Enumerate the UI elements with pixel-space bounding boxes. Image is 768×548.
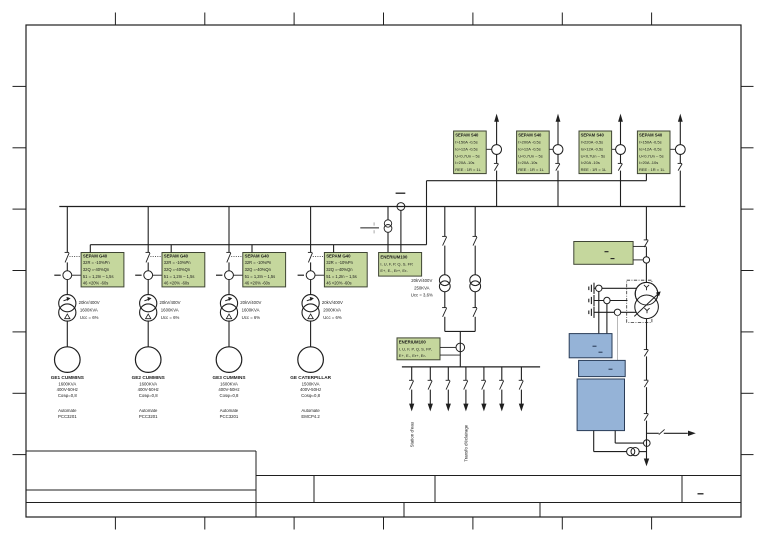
CT bar branch 4 <box>298 274 304 276</box>
wire metering line <box>90 244 426 246</box>
relay SEPAM G40 #4 <box>324 253 367 287</box>
transformer T1 20kV/400V <box>59 295 76 312</box>
svg-text:PCC3201: PCC3201 <box>58 414 77 419</box>
wire feeder 1 CT to breaker <box>496 154 498 163</box>
wire S40 sub-bus <box>427 180 647 182</box>
breaker Q3 generator branch 3 <box>226 251 231 253</box>
wye symbol secondary <box>644 308 649 313</box>
relay SEPAM G40 #3 <box>243 253 286 287</box>
switch LV feeder 3 <box>446 379 451 381</box>
svg-text:46 <20% -60s: 46 <20% -60s <box>83 281 108 286</box>
wire generator branch 4 drop <box>310 207 312 253</box>
CT feeder 4 <box>675 145 685 155</box>
wire LV feeder 6 <box>501 367 503 380</box>
coupling double circle <box>627 448 635 456</box>
wire tap3 gray to box2 <box>617 316 619 361</box>
wire aux transformer feeder 1 drop <box>444 207 446 237</box>
LV 400V bus <box>402 366 540 368</box>
control link breaker 1 to relay (dotted) <box>70 256 81 258</box>
outgoing feeder arrow 2 <box>556 114 561 122</box>
wire feeder 2 CT to breaker <box>557 154 559 163</box>
svg-text:EMCP4.2: EMCP4.2 <box>301 414 320 419</box>
svg-text:PCC3201: PCC3201 <box>220 414 239 419</box>
svg-text:SEPAM S40: SEPAM S40 <box>639 133 663 138</box>
control link breaker 3 to relay (dotted) <box>231 256 242 258</box>
arrow LV feeder 2 <box>428 404 433 412</box>
CT to relay link branch 4 <box>315 274 324 276</box>
switch LV feeder 6 <box>499 379 504 381</box>
svg-text:1600KVA: 1600KVA <box>139 381 157 386</box>
transformer aux 2 250KVA <box>470 275 481 286</box>
wire feeder 3 CT to breaker <box>620 154 622 163</box>
meter links lower <box>440 346 456 348</box>
breaker feeder 2 <box>555 162 560 164</box>
outgoing feeder arrow 4 <box>678 114 683 122</box>
VT voltage transformer <box>384 220 391 227</box>
ground tap 3 <box>593 307 595 318</box>
relay link feeder 1 <box>486 148 492 150</box>
svg-text:Io>12A -0,5s: Io>12A -0,5s <box>581 146 604 151</box>
OLTC arrow <box>634 294 658 317</box>
svg-text:SEPAM G40: SEPAM G40 <box>326 253 351 258</box>
wire feeder 1 upper <box>496 121 498 145</box>
wire CT to transformer <box>645 263 647 283</box>
transformer aux 1 250KVA <box>439 275 450 286</box>
svg-text:Automate: Automate <box>139 408 158 413</box>
wire aux join <box>445 330 475 332</box>
CT utility upper <box>643 257 649 263</box>
breaker Q1 generator branch 1 <box>65 251 70 253</box>
wire metering stub to relay 4 <box>333 245 335 253</box>
svg-text:32R = -10%Pn: 32R = -10%Pn <box>245 260 272 265</box>
wire LV feeder 1 <box>411 367 413 380</box>
CT to relay link branch 2 <box>153 274 162 276</box>
svg-text:2000KVA: 2000KVA <box>323 307 341 312</box>
svg-text:1600KVA: 1600KVA <box>80 307 98 312</box>
switch aux feeder 1 upper <box>442 235 447 237</box>
tap 2 wire <box>594 300 628 302</box>
svg-text:ENERIUM100: ENERIUM100 <box>399 340 427 345</box>
wire LV drop <box>459 331 461 367</box>
wire LV feeder 2 <box>429 367 431 380</box>
wire aux feeder 2 to join <box>474 317 476 332</box>
relay SEPAM S40 #2 <box>517 131 550 174</box>
svg-text:20kV/400V: 20kV/400V <box>79 300 100 305</box>
svg-text:I, U, F, P, Q, S, FP,: I, U, F, P, Q, S, FP, <box>380 261 413 266</box>
svg-text:SEPAM S40: SEPAM S40 <box>455 133 479 138</box>
svg-text:400V-50Hz: 400V-50Hz <box>218 387 239 392</box>
svg-text:SEPAM S40: SEPAM S40 <box>518 133 542 138</box>
switch right branch <box>659 429 665 434</box>
svg-text:46 <20% -60s: 46 <20% -60s <box>164 281 189 286</box>
wire breaker to CT branch 3 <box>228 262 230 270</box>
svg-text:51 = 1,2In – 1,5s: 51 = 1,2In – 1,5s <box>164 274 195 279</box>
switch utility upper <box>644 239 649 241</box>
svg-text:32Q =-40%Qn: 32Q =-40%Qn <box>164 267 191 272</box>
svg-text:I>220A -0,5s: I>220A -0,5s <box>581 140 604 145</box>
relay SEPAM G40 #1 <box>81 253 124 287</box>
svg-text:Cosφ=0,8: Cosφ=0,8 <box>220 393 240 398</box>
CT on main bus <box>397 203 405 211</box>
wire metering stub to relay 1 <box>89 245 91 253</box>
svg-text:51 = 1,2In – 1,5s: 51 = 1,2In – 1,5s <box>245 274 276 279</box>
control box blue 2 <box>579 360 626 376</box>
wire feeder 4 CT to breaker <box>679 154 681 163</box>
relay SEPAM S40 #4 <box>637 131 670 174</box>
svg-text:1600KVA: 1600KVA <box>220 381 238 386</box>
generator G3 circle <box>216 347 242 373</box>
branch to right arrow <box>647 432 659 434</box>
wire breaker to CT branch 2 <box>147 262 149 270</box>
switch aux feeder 1 lower <box>442 307 447 309</box>
svg-text:Io>12A -0,5s: Io>12A -0,5s <box>639 146 662 151</box>
breaker Q2 generator branch 2 <box>146 251 151 253</box>
svg-text:1500KVA: 1500KVA <box>302 381 320 386</box>
svg-text:Automate: Automate <box>58 408 77 413</box>
svg-text:Ucc = 6%: Ucc = 6% <box>80 315 99 320</box>
svg-text:32R = -10%Pn: 32R = -10%Pn <box>83 260 110 265</box>
wire LV feeder 1 lower <box>411 390 413 405</box>
CT tap 3 <box>614 309 620 315</box>
wire LV feeder 3 lower <box>447 390 449 405</box>
svg-text:20kV/400V: 20kV/400V <box>240 300 261 305</box>
svg-text:1600KVA: 1600KVA <box>58 381 76 386</box>
label dash above bus <box>396 192 406 194</box>
wire aux feeder 1 to join <box>444 317 446 332</box>
wire aux feeder 1 <box>444 246 446 275</box>
arrow right <box>688 431 696 436</box>
svg-text:32R = -10%Pn: 32R = -10%Pn <box>164 260 191 265</box>
wire transformer to generator 1 <box>66 321 68 347</box>
wire generator branch 1 drop <box>66 207 68 253</box>
svg-text:U<0,7Un – 5s: U<0,7Un – 5s <box>455 153 480 158</box>
svg-text:U<0,7Un – 5s: U<0,7Un – 5s <box>518 153 543 158</box>
svg-text:32R = -10%Pn: 32R = -10%Pn <box>326 260 353 265</box>
arrow LV feeder 6 <box>499 404 504 412</box>
CT feeder 3 <box>616 145 626 155</box>
svg-text:Ucc = 6%: Ucc = 6% <box>161 315 180 320</box>
switch LV feeder 5 <box>481 379 486 381</box>
svg-text:REE : 1R = 1L: REE : 1R = 1L <box>581 167 607 172</box>
wire transformer to generator 2 <box>147 321 149 347</box>
wire LV feeder 3 <box>447 367 449 380</box>
wire utility <box>646 356 648 380</box>
svg-text:250KVA: 250KVA <box>414 285 430 290</box>
svg-text:SEPAM S40: SEPAM S40 <box>581 133 605 138</box>
svg-text:Cosφ=0,8: Cosφ=0,8 <box>139 393 159 398</box>
wire LV feeder 6 lower <box>501 390 503 405</box>
wire aux feeder 2 lower <box>474 292 476 308</box>
svg-text:Cosφ=0,8: Cosφ=0,8 <box>301 393 321 398</box>
main 20kV bus <box>59 206 685 208</box>
arrow LV feeder 3 <box>446 404 451 412</box>
CT LV drop <box>456 343 465 352</box>
relay box right (green) <box>574 242 633 265</box>
svg-text:PCC3201: PCC3201 <box>139 414 158 419</box>
box3 stub left to coupling <box>593 431 595 452</box>
wire feeder 3 upper <box>620 121 622 145</box>
wire LV feeder 5 <box>483 367 485 380</box>
arrow LV feeder 5 <box>481 404 486 412</box>
svg-text:20kV/400V: 20kV/400V <box>160 300 181 305</box>
transformer T4 20kV/400V <box>302 295 319 312</box>
breaker feeder 3 <box>618 162 623 164</box>
svg-text:U<0,7Un – 5s: U<0,7Un – 5s <box>639 153 664 158</box>
wire generator branch 3 drop <box>228 207 230 253</box>
CT branch 4 <box>306 271 315 280</box>
relay link upper <box>633 245 646 247</box>
wire feeder 4 upper <box>679 121 681 145</box>
tap 1 wire <box>594 287 646 289</box>
svg-text:SEPAM G40: SEPAM G40 <box>164 253 189 258</box>
box3 stub right to CT <box>614 431 616 444</box>
svg-text:I>200A -0,5s: I>200A -0,5s <box>518 140 541 145</box>
wire tap2 to box <box>606 304 608 334</box>
CT bar branch 2 <box>135 274 141 276</box>
wire VT drop <box>387 207 389 220</box>
arrow LV feeder 1 <box>409 404 414 412</box>
svg-text:Cosφ=0,8: Cosφ=0,8 <box>58 393 78 398</box>
transformer T2 20kV/400V <box>140 295 157 312</box>
wire tap1 to box <box>598 292 600 334</box>
title block dash label <box>698 493 704 495</box>
CT branch 1 <box>63 271 72 280</box>
switch LV feeder 2 <box>428 379 433 381</box>
svg-text:GE3 CUMMINS: GE3 CUMMINS <box>212 375 245 380</box>
svg-text:I>20A -10s: I>20A -10s <box>518 160 537 165</box>
relay SEPAM G40 #2 <box>162 253 205 287</box>
svg-text:400V-50Hz: 400V-50Hz <box>138 387 159 392</box>
svg-text:I>20A -10s: I>20A -10s <box>639 160 658 165</box>
meter ENERIUM100 upper <box>379 253 422 277</box>
arrow LV feeder 4 <box>463 404 468 412</box>
svg-text:I>20A -10s: I>20A -10s <box>581 160 600 165</box>
wire LV feeder 2 lower <box>429 390 431 405</box>
relay SEPAM S40 #3 <box>579 131 612 174</box>
svg-text:51 = 1,2In – 1,5s: 51 = 1,2In – 1,5s <box>326 274 357 279</box>
svg-text:REE : 1R = 1L: REE : 1R = 1L <box>455 167 481 172</box>
svg-text:I, U, F, P, Q, S, FP,: I, U, F, P, Q, S, FP, <box>399 347 432 352</box>
svg-text:20kV/400V: 20kV/400V <box>411 278 432 283</box>
wire CT to transformer branch 2 <box>147 280 149 295</box>
wire metering stub to relay 2 <box>170 245 172 253</box>
svg-text:32Q =-40%Qn: 32Q =-40%Qn <box>326 267 353 272</box>
svg-text:Station d'eau: Station d'eau <box>409 421 414 447</box>
wire transformer to generator 3 <box>228 321 230 347</box>
svg-text:SEPAM G40: SEPAM G40 <box>245 253 270 258</box>
wire LV feeder 4 <box>465 367 467 380</box>
ground tap 2 <box>593 295 595 306</box>
switch LV feeder 1 <box>409 379 414 381</box>
title block <box>26 451 741 517</box>
wire breaker to CT branch 4 <box>310 262 312 270</box>
wire CT to transformer branch 1 <box>66 280 68 295</box>
wire transformer to generator 4 <box>310 321 312 347</box>
breaker Q4 generator branch 4 <box>308 251 313 253</box>
transformer main OLTC <box>635 282 658 305</box>
transformer T3 20kV/400V <box>220 295 237 312</box>
svg-text:SEPAM G40: SEPAM G40 <box>83 253 108 258</box>
relay link feeder 3 <box>612 148 616 150</box>
switch aux feeder 2 upper <box>473 235 478 237</box>
CT branch 3 <box>225 271 234 280</box>
wire CT to transformer branch 3 <box>228 280 230 295</box>
svg-text:51 = 1,2In – 1,5s: 51 = 1,2In – 1,5s <box>83 274 114 279</box>
ground tap 1 <box>593 283 595 294</box>
tap 3 wire <box>594 311 647 313</box>
switch LV feeder 4 <box>463 379 468 381</box>
wye symbol primary <box>644 285 649 290</box>
CT utility lower <box>644 440 651 447</box>
wire metering stub to relay 3 <box>251 245 253 253</box>
CT branch 2 <box>144 271 153 280</box>
svg-text:400V-50Hz: 400V-50Hz <box>300 387 321 392</box>
control box blue 3 <box>577 379 624 431</box>
svg-text:Automate: Automate <box>301 408 320 413</box>
svg-text:I>150A -0,5s: I>150A -0,5s <box>455 140 478 145</box>
svg-text:GE CATERPILLAR: GE CATERPILLAR <box>290 375 331 380</box>
control link breaker 4 to relay (dotted) <box>313 256 324 258</box>
wire feeder 2 to bus <box>557 171 559 207</box>
svg-text:U<0,7Un – 5s: U<0,7Un – 5s <box>581 153 606 158</box>
CT to relay link branch 1 <box>72 274 81 276</box>
relay link feeder 2 <box>549 148 553 150</box>
svg-text:Io>12A -0,5s: Io>12A -0,5s <box>455 146 478 151</box>
control box blue 1 <box>569 334 612 358</box>
wire LV feeder 7 <box>520 367 522 380</box>
relay SEPAM S40 #1 <box>454 131 487 174</box>
svg-text:46 <20% -60s: 46 <20% -60s <box>326 281 351 286</box>
svg-text:1600KVA: 1600KVA <box>242 307 260 312</box>
svg-text:Ucc = 6%: Ucc = 6% <box>323 315 342 320</box>
wire stub sub-bus to relay S40 #4 <box>645 174 647 181</box>
wire LV feeder 5 lower <box>483 390 485 405</box>
svg-text:ENERIUM100: ENERIUM100 <box>380 254 408 259</box>
svg-text:GE2 CUMMINS: GE2 CUMMINS <box>132 375 165 380</box>
arrow utility down <box>644 459 649 467</box>
wire LV feeder 7 lower <box>520 390 522 405</box>
outgoing feeder arrow 1 <box>494 114 499 122</box>
wire aux feeder 2 <box>474 246 476 275</box>
meter ENERIUM100 lower <box>397 338 440 360</box>
wire feeder 1 to bus <box>496 171 498 207</box>
switch utility 2 <box>644 379 649 381</box>
CT feeder 1 <box>492 145 502 155</box>
CT tap 2 <box>604 297 610 303</box>
relay link lower to CT <box>633 259 643 261</box>
CT feeder 2 <box>553 145 563 155</box>
svg-text:E+, E-, Er+, Er-: E+, E-, Er+, Er- <box>399 353 427 358</box>
CT to relay link branch 3 <box>233 274 242 276</box>
svg-text:20kV/400V: 20kV/400V <box>322 300 343 305</box>
generator G2 circle <box>135 347 161 373</box>
wire utility lower <box>646 421 648 459</box>
svg-text:32Q =-40%Qn: 32Q =-40%Qn <box>245 267 272 272</box>
relay link feeder 4 <box>670 148 675 150</box>
VT secondary ground lead <box>360 227 379 229</box>
CT bar branch 1 <box>54 274 60 276</box>
wire CT to transformer branch 4 <box>310 280 312 295</box>
svg-text:I>20A -10s: I>20A -10s <box>455 160 474 165</box>
wire feeder 2 upper <box>557 121 559 145</box>
wire VT to meter <box>387 232 389 252</box>
wire utility to CT <box>645 247 647 257</box>
svg-text:I>150A -0,5s: I>150A -0,5s <box>639 140 662 145</box>
svg-text:REE : 1R = 1L: REE : 1R = 1L <box>518 167 544 172</box>
wire breaker to CT branch 1 <box>66 262 68 270</box>
svg-text:E+, E-, Er+, Er-: E+, E-, Er+, Er- <box>380 268 408 273</box>
svg-text:REE : 1R = 1L: REE : 1R = 1L <box>639 167 665 172</box>
svg-text:Io>12A -0,5s: Io>12A -0,5s <box>518 146 541 151</box>
protection zone dash-dot box <box>627 280 652 322</box>
outgoing feeder arrow 3 <box>618 114 623 122</box>
svg-text:1600KVA: 1600KVA <box>161 307 179 312</box>
switch utility 3 <box>644 413 649 415</box>
wire LV feeder 4 lower <box>465 390 467 405</box>
wire aux transformer feeder 2 drop <box>474 207 476 237</box>
wire aux feeder 1 lower <box>444 292 446 308</box>
svg-text:GE1 CUMMINS: GE1 CUMMINS <box>51 375 84 380</box>
switch LV feeder 7 <box>519 379 524 381</box>
arrow LV feeder 7 <box>519 404 524 412</box>
wire utility transformer secondary down <box>646 319 648 350</box>
svg-text:Automate: Automate <box>220 408 239 413</box>
switch aux feeder 2 lower <box>473 307 478 309</box>
wire feeder 3 to bus <box>620 171 622 207</box>
svg-text:46 <20% -60s: 46 <20% -60s <box>245 281 270 286</box>
CT bar branch 3 <box>216 274 222 276</box>
wire tie sub-bus to main bus and metering line <box>426 181 428 245</box>
generator G4 circle <box>298 347 324 373</box>
wire utility branch from bus <box>645 207 647 240</box>
svg-text:Ucc = 3,6%: Ucc = 3,6% <box>411 293 433 298</box>
breaker feeder 4 <box>678 162 683 164</box>
svg-text:Ucc = 6%: Ucc = 6% <box>242 315 261 320</box>
control link breaker 2 to relay (dotted) <box>150 256 161 258</box>
wire utility <box>646 387 648 413</box>
svg-text:400V-50Hz: 400V-50Hz <box>57 387 78 392</box>
switch utility 1 <box>644 349 649 351</box>
wire generator branch 2 drop <box>147 207 149 253</box>
wire CT to meter <box>400 210 402 252</box>
CT tap 1 <box>596 285 602 291</box>
svg-text:32Q =-40%Qn: 32Q =-40%Qn <box>83 267 110 272</box>
generator G1 circle <box>55 347 81 373</box>
svg-text:Transfo d'éclairage: Transfo d'éclairage <box>464 424 469 462</box>
breaker feeder 1 <box>494 162 499 164</box>
wire feeder 4 to bus <box>679 171 681 207</box>
